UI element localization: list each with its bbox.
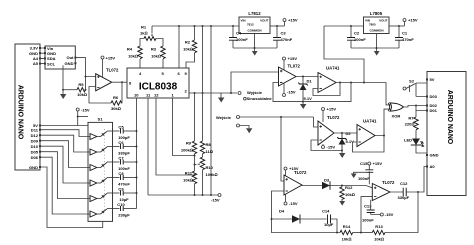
S1 row1: buffer + switch <box>90 131 120 140</box>
svg-text:12: 12 <box>154 93 159 98</box>
wire GND loop to S1 bottom <box>41 167 103 228</box>
svg-text:GND: GND <box>65 61 74 66</box>
wire UA741 out to XOR <box>336 83 391 105</box>
svg-text:TL072: TL072 <box>106 68 119 73</box>
S1 row5: buffer + switch <box>90 193 120 202</box>
feedback loop UA741 row2 <box>353 136 385 153</box>
feedback loop U9A <box>311 133 342 151</box>
wire D12 to buffer2 <box>41 135 90 152</box>
wire D06 to buffer6 <box>41 157 90 214</box>
svg-text:10kΩ: 10kΩ <box>374 237 384 242</box>
wire node down to R9 <box>194 93 196 141</box>
svg-text:C15: C15 <box>360 161 368 166</box>
svg-text:R1: R1 <box>141 25 147 30</box>
svg-text:C2: C2 <box>354 31 360 36</box>
feedback loop UA741 row1 <box>313 83 340 96</box>
svg-text:R5: R5 <box>78 82 84 87</box>
S1 row3: buffer + switch <box>90 162 120 171</box>
svg-text:30kΩ: 30kΩ <box>111 106 121 111</box>
wire Wejscie node down to row3 buffer <box>281 117 284 181</box>
op-amp U8 UA741 row1 <box>318 66 340 93</box>
resistor R11 10k <box>183 171 197 196</box>
svg-text:A5: A5 <box>33 61 39 66</box>
svg-text:VOUT: VOUT <box>260 19 269 23</box>
svg-text:C14: C14 <box>322 209 330 214</box>
svg-text:D4: D4 <box>279 209 285 214</box>
resistor R5 10k <box>62 82 87 97</box>
svg-text:11Ω: 11Ω <box>206 149 213 154</box>
resistor R14 10k <box>340 224 361 242</box>
svg-text:TL072: TL072 <box>288 64 301 69</box>
-15V terminal row1 <box>283 84 296 97</box>
resistor R12 10k <box>340 185 355 202</box>
capacitor C5 100pF <box>118 125 137 140</box>
svg-text:10kΩ: 10kΩ <box>183 178 193 183</box>
+15V terminal after 7812 <box>283 18 298 27</box>
svg-text:TL072: TL072 <box>327 115 340 120</box>
svg-text:+15V: +15V <box>373 161 383 166</box>
wire pin6 to rail <box>178 26 180 68</box>
svg-text:100nF: 100nF <box>236 37 248 42</box>
svg-text:100nF: 100nF <box>358 176 370 181</box>
svg-text:R10: R10 <box>206 165 214 170</box>
svg-text:10kΩ: 10kΩ <box>151 54 161 59</box>
svg-text:100nF: 100nF <box>354 37 366 42</box>
svg-text:C3: C3 <box>281 31 287 36</box>
svg-text:7805: 7805 <box>369 23 376 27</box>
resistor R8 1k <box>200 141 213 157</box>
svg-text:C4: C4 <box>236 31 242 36</box>
ground under Wyjscie wire <box>218 93 224 103</box>
op-amp U9A TL072 row2 <box>318 115 340 145</box>
diode D3 <box>322 178 330 190</box>
svg-text:D2: D2 <box>346 131 352 136</box>
svg-text:11: 11 <box>146 93 151 98</box>
op-amp U4A TL072 <box>96 68 119 91</box>
svg-text:L7812: L7812 <box>248 11 261 16</box>
svg-text:C1: C1 <box>402 31 408 36</box>
svg-text:D11: D11 <box>31 127 39 132</box>
resistor R3 10k <box>151 46 165 68</box>
svg-text:230µF: 230µF <box>118 213 130 218</box>
capacitor C13 100nF with -15V <box>362 200 394 223</box>
wire pin2 output <box>189 92 237 94</box>
S1 row2: buffer + switch <box>90 147 120 156</box>
wire from rail down to UA741 net <box>324 26 364 83</box>
svg-text:R2: R2 <box>185 40 191 45</box>
svg-text:+15V: +15V <box>288 56 298 61</box>
wire pin12 down <box>156 98 195 175</box>
wire D11 to buffer1 <box>41 130 90 137</box>
svg-text:+15V: +15V <box>327 107 337 112</box>
wire U4A output to ICL8038 pin8 <box>112 81 127 83</box>
capacitor C10 230uF <box>117 202 136 217</box>
svg-text:S2: S2 <box>409 79 415 84</box>
capacitor C3 470nF <box>273 26 293 48</box>
resistor R13 10k <box>361 191 419 242</box>
capacitor C6 330pF <box>118 140 137 155</box>
resistor R9 100k <box>181 141 197 172</box>
svg-text:VIN: VIN <box>241 19 246 23</box>
svg-text:10kΩ: 10kΩ <box>77 92 87 97</box>
svg-text:470nF: 470nF <box>281 37 293 42</box>
svg-text:10: 10 <box>134 93 139 98</box>
svg-text:10kΩ: 10kΩ <box>345 192 355 197</box>
svg-text:-15V: -15V <box>211 198 220 203</box>
svg-text:5.1V: 5.1V <box>304 96 313 101</box>
svg-text:ARDUINO NANO: ARDUINO NANO <box>446 90 453 145</box>
diode D4 <box>272 209 327 224</box>
svg-text:100nF: 100nF <box>362 218 374 223</box>
capacitor C14 10uF <box>322 209 338 234</box>
svg-text:7812: 7812 <box>247 23 254 27</box>
svg-text:L7805: L7805 <box>370 11 383 16</box>
switch S2 <box>403 79 427 97</box>
svg-text:+15V: +15V <box>288 18 298 23</box>
op-amp U12A TL072 row3 <box>284 170 307 195</box>
wire rail down long <box>210 26 212 195</box>
svg-text:100kΩ: 100kΩ <box>206 172 218 177</box>
wire D01 to R7 node <box>416 106 427 111</box>
S1 row6: buffer + switch <box>90 209 120 218</box>
svg-text:VOUT: VOUT <box>379 19 388 23</box>
wire 7805 output <box>389 25 405 27</box>
resistor R7 220R <box>405 111 419 139</box>
svg-text:ICL8038: ICL8038 <box>139 82 178 93</box>
svg-text:UA741: UA741 <box>363 119 377 124</box>
svg-text:Wejście: Wejście <box>216 115 232 120</box>
svg-text:1kΩ: 1kΩ <box>140 31 148 36</box>
-15V terminal bottom cluster <box>148 194 221 203</box>
svg-text:D10: D10 <box>31 144 39 149</box>
svg-text:R8: R8 <box>206 142 212 147</box>
wire node to row1 buffer input <box>231 72 279 93</box>
+15V terminal for op-amp U4A <box>101 55 115 77</box>
svg-text:470nF: 470nF <box>402 37 414 42</box>
wire XOR out to D02 <box>404 106 428 108</box>
top +15V rail wire <box>152 25 239 27</box>
svg-text:GND: GND <box>29 165 38 170</box>
+5V terminal after 7805 <box>403 18 418 27</box>
feedback loop U7A <box>273 83 351 102</box>
op-amp U10 UA741 row2 <box>357 119 377 147</box>
wire to 7805 input <box>324 25 364 27</box>
svg-text:5V: 5V <box>430 77 435 82</box>
svg-text:R13: R13 <box>375 224 383 229</box>
svg-text:D05: D05 <box>31 149 39 154</box>
XOR gate <box>388 103 403 119</box>
svg-text:D01: D01 <box>430 108 438 113</box>
capacitor C12 330uF output <box>390 167 427 201</box>
capacitor C8 470nF <box>118 171 137 186</box>
svg-text:R9: R9 <box>186 141 192 146</box>
svg-text:10kΩ: 10kΩ <box>183 47 193 52</box>
wire ICL outputs down: pin10 bus <box>136 98 138 209</box>
svg-text:R11: R11 <box>185 171 193 176</box>
svg-text:R14: R14 <box>343 224 351 229</box>
IC U1 ICL8038 <box>127 68 189 98</box>
wire pin2 node down to R8 <box>202 26 204 141</box>
potentiometer R10 100k <box>194 157 218 195</box>
DAC module U3 <box>44 46 76 69</box>
wire pin1 down <box>173 98 195 156</box>
svg-text:-15V: -15V <box>289 201 298 206</box>
wire UA741 row2 out to XOR <box>375 109 391 135</box>
svg-text:10kΩ: 10kΩ <box>342 237 352 242</box>
node Wyjscie Sinusoidalne <box>238 90 272 101</box>
arduino U11 (right ARDUINO NANO) <box>426 72 466 196</box>
wire 7812 output <box>270 25 285 27</box>
ground at C15 <box>351 174 357 179</box>
op-amp U7A TL072 <box>279 64 301 87</box>
svg-text:10µF: 10µF <box>324 222 334 227</box>
wire D05 to buffer5 <box>41 152 90 199</box>
svg-text:10kΩ: 10kΩ <box>128 54 138 59</box>
svg-text:GND: GND <box>430 153 439 158</box>
svg-text:COMMON: COMMON <box>370 29 384 33</box>
regulator U6 L7805 <box>364 11 390 34</box>
-15V terminal near S1 <box>76 108 90 126</box>
+15V terminal row1 <box>283 56 298 70</box>
svg-text:R3: R3 <box>151 47 157 52</box>
wire 5V to S1 <box>41 125 88 127</box>
+15V terminal row3 <box>284 166 299 176</box>
-15V terminal row3 <box>284 194 298 206</box>
wire U7A out to UA741 <box>296 76 318 78</box>
capacitor C9 10uF <box>118 187 137 202</box>
-15V terminal row2 <box>322 144 336 150</box>
wire D10 to buffer4 <box>41 146 90 183</box>
svg-text:Wyjście: Wyjście <box>247 90 263 95</box>
feedback wire with R6 <box>89 87 111 104</box>
ground bus 7812 <box>233 34 277 56</box>
resistor R2 10k <box>183 26 197 68</box>
ground under D2 <box>339 151 345 159</box>
svg-text:-15V: -15V <box>81 108 90 113</box>
svg-text:R12: R12 <box>345 185 353 190</box>
ground under module <box>60 90 66 99</box>
capacitor C4 100nF <box>229 26 248 48</box>
wire minus U13A down <box>361 197 372 233</box>
arduino U2 (left ARDUINO NANO) <box>15 44 41 170</box>
svg-text:COMMON: COMMON <box>248 29 262 33</box>
svg-text:D12: D12 <box>31 133 39 138</box>
ground bus 7805 <box>351 34 399 56</box>
svg-text:Out: Out <box>67 55 75 60</box>
wire Wejscie to row2 buffer <box>314 117 319 127</box>
svg-text:D1: D1 <box>307 79 313 84</box>
S1 row4: buffer + switch <box>90 178 120 187</box>
svg-text:S1: S1 <box>98 117 104 122</box>
svg-text:+15V: +15V <box>106 55 116 60</box>
+15V terminal row2 <box>322 107 337 123</box>
svg-text:+15V: +15V <box>408 18 418 23</box>
wire module Out <box>76 58 95 90</box>
svg-text:R6: R6 <box>113 95 119 100</box>
wire U9A out to UA741 row2 <box>334 132 357 134</box>
resistor R6 30k <box>111 82 122 111</box>
switch box S1 <box>88 117 113 222</box>
LED D5 <box>404 138 427 154</box>
svg-text:TL072: TL072 <box>382 180 395 185</box>
ground under D1 <box>300 102 306 109</box>
svg-text:D03: D03 <box>430 94 438 99</box>
svg-text:R4: R4 <box>127 47 133 52</box>
svg-text:LED: LED <box>404 138 412 143</box>
node Wejscie <box>216 115 314 128</box>
wire U12A out through D3 <box>302 186 372 188</box>
wire D09 to buffer3 <box>41 141 90 168</box>
wire arduino to module <box>41 48 44 64</box>
zener D2 5.1V <box>337 131 354 152</box>
potentiometer R1 1k <box>140 25 163 47</box>
svg-text:UA741: UA741 <box>326 66 340 71</box>
svg-text:C10: C10 <box>117 202 125 207</box>
wire module GND down <box>62 65 64 90</box>
svg-text:A0: A0 <box>430 164 436 169</box>
svg-text:ARDUINO NANO: ARDUINO NANO <box>17 85 24 140</box>
op-amp U13A TL072 row4 <box>372 180 395 201</box>
svg-text:100kΩ: 100kΩ <box>181 148 193 153</box>
svg-text:XOR: XOR <box>392 114 401 119</box>
feedback loop U12A down <box>272 191 341 233</box>
svg-text:C12: C12 <box>400 181 408 186</box>
ground under Wejscie <box>246 128 252 133</box>
svg-text:TL072: TL072 <box>294 170 307 175</box>
svg-text:-15V: -15V <box>327 145 336 150</box>
wire pin11 down <box>147 98 149 195</box>
svg-text:D06: D06 <box>31 155 39 160</box>
capacitor C15 100nF with +15V <box>354 161 383 184</box>
zener D1 5.1V <box>298 77 312 103</box>
svg-text:D09: D09 <box>31 138 39 143</box>
capacitor C2 100nF <box>347 26 366 48</box>
ground under R12 <box>339 201 345 206</box>
svg-text:D3: D3 <box>324 178 330 183</box>
svg-text:-15V: -15V <box>287 90 296 95</box>
capacitor C7 100nF <box>118 156 137 171</box>
resistor R4 10k <box>127 46 142 68</box>
svg-text:-15V: -15V <box>385 212 394 217</box>
svg-text:SCL: SCL <box>47 61 56 66</box>
capacitor C1 470nF <box>395 26 414 48</box>
regulator U5 L7812 <box>239 11 270 34</box>
svg-text:Sinusoidalne: Sinusoidalne <box>247 96 273 101</box>
